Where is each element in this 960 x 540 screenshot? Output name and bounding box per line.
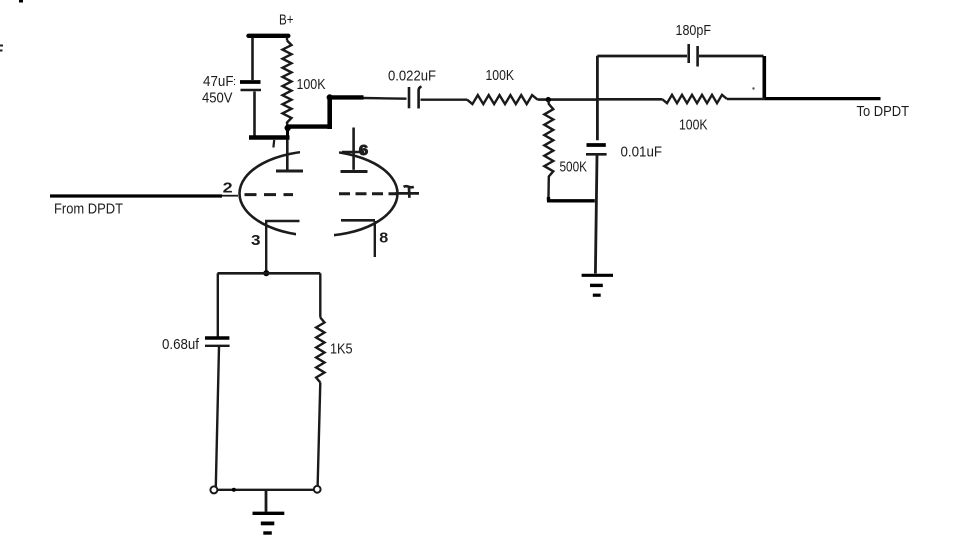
label 47uF 450V <box>202 73 236 107</box>
wire RC bottom bar <box>216 489 318 491</box>
svg-text:0.68uf: 0.68uf <box>162 336 200 353</box>
capacitor C4 0.01uF <box>586 145 607 154</box>
wire 500K bottom to ground leg <box>547 197 595 201</box>
triode B grid (dashed, pin 7) <box>339 192 397 195</box>
wire thin lead to 0.022uF <box>364 97 407 100</box>
wire 180pF loop right vertical <box>762 56 766 99</box>
svg-text:To DPDT: To DPDT <box>857 103 910 120</box>
pin 7 stub wire <box>395 192 419 195</box>
wire 180pF loop top right <box>699 55 764 58</box>
resistor R1 100K (plate load) <box>283 38 292 128</box>
wire 0.68uf down <box>216 347 219 487</box>
wire 180pF loop top left <box>597 55 687 58</box>
triode A plate bar <box>276 170 303 173</box>
svg-text:450V: 450V <box>202 90 233 107</box>
svg-text:2: 2 <box>223 180 233 196</box>
wire left branch to 0.68uf <box>217 273 219 336</box>
triode A cathode lead (pin 3) <box>265 222 267 274</box>
pin 7 label <box>404 186 414 198</box>
svg-text:100K: 100K <box>486 67 515 84</box>
triode A grid (dashed, pin 2) <box>245 193 294 196</box>
wire R4 to right vertical <box>727 98 765 101</box>
svg-text:0.022uF: 0.022uF <box>388 68 436 85</box>
wire output to DPDT <box>765 97 881 100</box>
resistor R3 500K <box>544 100 553 197</box>
wire 0.01uF down to ground <box>595 156 597 274</box>
svg-text:From DPDT: From DPDT <box>54 201 123 218</box>
wire 0.022uF to R2 <box>421 98 468 100</box>
wire thick L from plate junction to coupling cap (horizontal) <box>288 124 330 128</box>
capacitor C3 180pF <box>689 44 698 67</box>
triode B plate bar <box>341 170 368 173</box>
pin 1 tick <box>272 140 275 148</box>
svg-text:B+: B+ <box>279 12 294 29</box>
triode A cathode bar <box>265 220 300 223</box>
ground G2 <box>253 513 285 533</box>
triode B plate top tick <box>342 151 364 153</box>
edge artifact left <box>0 46 3 51</box>
ground G1 <box>582 275 613 295</box>
svg-text:500K: 500K <box>560 159 588 176</box>
wire 47uF cap to plate bus bar <box>253 92 256 136</box>
svg-text:6: 6 <box>359 142 369 159</box>
wire input From DPDT <box>50 194 222 197</box>
capacitor C1 47uF 450V <box>240 82 261 90</box>
triode B cathode lead (pin 8) <box>374 221 376 257</box>
wire 1K5 down <box>318 383 321 488</box>
svg-text::: : <box>233 76 236 88</box>
wire thick L vertical <box>327 97 332 129</box>
svg-text:100K: 100K <box>679 117 708 134</box>
triode B cathode bar <box>341 219 375 222</box>
wire junction down to plate bus bar <box>286 128 289 137</box>
node open terminal left <box>210 486 217 493</box>
node open terminal right <box>314 486 321 493</box>
wire R2 to mid vertical <box>538 98 598 101</box>
svg-text:180pF: 180pF <box>676 22 712 39</box>
node thick wire corner (dot) <box>327 94 333 100</box>
svg-text:100K: 100K <box>297 76 326 93</box>
wire cathode RC top bar <box>218 272 321 275</box>
wire thick to coupling cap <box>330 95 364 99</box>
plate bus bar (thick) <box>249 135 290 140</box>
edge artifact top <box>19 0 23 3</box>
B+ supply bar (thick) <box>249 34 289 38</box>
resistor R2 100K (series) <box>467 95 538 104</box>
tube V1 envelope <box>240 146 398 241</box>
wire feedback left vertical <box>596 56 599 140</box>
node plate junction (dot) <box>285 125 291 131</box>
svg-text:47uF: 47uF <box>203 73 234 90</box>
capacitor C2 0.022uF <box>409 87 422 109</box>
node cathode junction (dot) <box>263 270 269 276</box>
svg-text:8: 8 <box>379 231 388 247</box>
svg-text:1K5: 1K5 <box>330 341 353 358</box>
resistor R5 1K5 <box>316 318 324 383</box>
triode B plate lead (pin 6) <box>352 128 355 170</box>
wire B+ bar to 47uF cap <box>251 38 254 81</box>
node 500K junction (dot) <box>546 97 551 102</box>
svg-text:0.01uF: 0.01uF <box>621 144 663 161</box>
speck artifact <box>752 87 754 89</box>
triode A plate lead <box>286 140 289 170</box>
svg-text:3: 3 <box>251 233 261 249</box>
wire right branch to 1K5 <box>319 273 321 317</box>
wire ground stub <box>265 490 268 512</box>
capacitor C5 0.68uf <box>205 338 230 346</box>
wire mid vertical to R4 <box>597 98 662 101</box>
resistor R4 100K (feedback) <box>662 95 727 103</box>
